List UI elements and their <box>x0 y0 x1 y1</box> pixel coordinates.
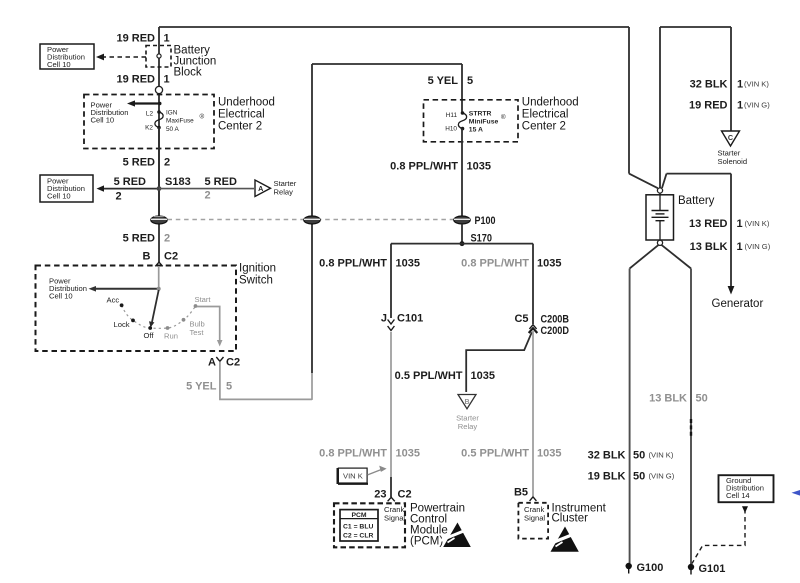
wire: battery positive riser x=660 top loop <box>660 26 731 28</box>
svg-text:B: B <box>464 399 469 406</box>
svg-text:Acc: Acc <box>107 296 120 305</box>
wire: 5 YEL from ignition A down and right (gray) <box>220 362 312 400</box>
svg-text:P100: P100 <box>475 215 496 227</box>
svg-text:S183: S183 <box>165 176 191 188</box>
wire: S183 right to starter relay A <box>159 188 254 190</box>
svg-text:(PCM): (PCM) <box>410 536 443 548</box>
connector Underhood Electrical Center 2 dashed box (right) <box>424 100 519 142</box>
svg-text:2: 2 <box>116 191 122 203</box>
svg-text:19 RED: 19 RED <box>116 33 155 45</box>
wire: right branch x=533 down to C5 <box>532 244 534 324</box>
svg-text:Cell 10: Cell 10 <box>47 192 71 201</box>
svg-text:Cell 10: Cell 10 <box>91 116 115 125</box>
svg-text:5 RED: 5 RED <box>123 157 155 169</box>
wire: top of 5 YEL loop y=64 <box>312 63 462 65</box>
symbol ESD warning (Instrument Cluster) <box>548 527 579 552</box>
svg-text:Electrical: Electrical <box>218 109 265 121</box>
wire: drop x=462 to MiniFuse <box>461 64 463 112</box>
wire: arrow to power distribution inside ignition switch <box>96 288 158 290</box>
connector triangle A to Starter Relay <box>255 180 271 197</box>
svg-text:Run: Run <box>164 332 178 341</box>
svg-text:®: ® <box>501 113 506 121</box>
callout VIN K box <box>338 466 387 484</box>
svg-text:G101: G101 <box>699 563 726 575</box>
svg-text:Cell 14: Cell 14 <box>726 491 750 500</box>
wire: from Start contact to connector A (gray) <box>197 307 220 341</box>
svg-text:Cell 10: Cell 10 <box>49 292 73 301</box>
node: junction block pass-through circle <box>157 54 161 58</box>
svg-text:1035: 1035 <box>467 161 491 173</box>
svg-text:C2: C2 <box>226 357 240 369</box>
svg-text:H10: H10 <box>445 126 457 133</box>
node: connector circle into Underhood Electrical Center 2 <box>155 86 162 93</box>
svg-text:Start: Start <box>195 295 212 304</box>
connector triangle C to Starter Solenoid <box>722 131 740 146</box>
svg-text:1: 1 <box>164 74 170 86</box>
grommet on trunk x=159 <box>151 216 167 224</box>
svg-text:32 BLK: 32 BLK <box>588 450 626 462</box>
svg-text:C1 = BLU: C1 = BLU <box>343 524 373 531</box>
svg-text:50: 50 <box>696 393 708 405</box>
svg-text:Lock: Lock <box>114 320 130 329</box>
svg-text:A: A <box>258 184 263 193</box>
svg-text:5: 5 <box>226 381 232 393</box>
svg-text:0.8 PPL/WHT: 0.8 PPL/WHT <box>390 161 458 173</box>
svg-text:Signal: Signal <box>384 514 405 523</box>
connector Battery Junction Block dashed box <box>146 46 171 68</box>
svg-text:(VIN K): (VIN K) <box>745 219 770 228</box>
svg-text:VIN K: VIN K <box>343 472 363 481</box>
svg-text:®: ® <box>200 113 205 121</box>
svg-text:0.8 PPL/WHT: 0.8 PPL/WHT <box>319 258 387 270</box>
svg-text:Electrical: Electrical <box>522 109 569 121</box>
svg-text:H11: H11 <box>446 112 458 119</box>
wire: battery negative V split <box>630 245 659 269</box>
svg-text:1: 1 <box>737 79 743 91</box>
wire: generator drop x=731 <box>730 174 732 286</box>
svg-text:0.5 PPL/WHT: 0.5 PPL/WHT <box>395 370 463 382</box>
svg-text:23: 23 <box>374 489 386 501</box>
module Instrument Cluster dashed box <box>518 503 548 539</box>
wire: dashed gray bulkhead line <box>168 219 455 221</box>
svg-text:2: 2 <box>164 233 170 245</box>
wire: arrow to power distribution inside underhood center <box>135 102 160 104</box>
battery cell symbol <box>652 193 669 240</box>
wire: dashed reference to G101 <box>742 506 748 513</box>
svg-text:Relay: Relay <box>274 188 294 197</box>
svg-text:1: 1 <box>737 218 743 230</box>
svg-text:0.5 PPL/WHT: 0.5 PPL/WHT <box>461 448 529 460</box>
svg-text:19 BLK: 19 BLK <box>588 471 626 483</box>
svg-text:C2: C2 <box>164 251 178 263</box>
svg-text:5: 5 <box>467 75 473 87</box>
svg-text:0.8 PPL/WHT: 0.8 PPL/WHT <box>461 258 529 270</box>
svg-text:5 RED: 5 RED <box>123 233 155 245</box>
svg-text:Off: Off <box>144 331 155 340</box>
svg-text:Solenoid: Solenoid <box>718 157 748 166</box>
svg-text:Relay: Relay <box>458 422 478 431</box>
svg-text:Ignition: Ignition <box>239 263 276 275</box>
svg-text:50 A: 50 A <box>166 126 180 133</box>
svg-text:50: 50 <box>633 450 645 462</box>
svg-text:Block: Block <box>174 67 202 79</box>
wire: left branch x=391 down to C101 <box>390 244 392 318</box>
battery box <box>646 195 674 240</box>
svg-text:1035: 1035 <box>537 448 561 460</box>
svg-text:13 BLK: 13 BLK <box>649 393 687 405</box>
svg-text:Generator: Generator <box>712 298 764 310</box>
switch arm to Off <box>152 290 159 322</box>
box Power Distribution Cell 10 (second) <box>40 175 93 202</box>
wire: ignition feed inside box <box>158 266 160 289</box>
svg-text:1: 1 <box>737 241 743 253</box>
wire: starter solenoid drop x=731 <box>730 27 732 131</box>
wire: riser x=312 (gray lower part) <box>311 373 313 400</box>
svg-text:L2: L2 <box>146 111 154 118</box>
svg-text:(VIN G): (VIN G) <box>649 472 675 481</box>
svg-text:50: 50 <box>633 471 645 483</box>
svg-text:(VIN K): (VIN K) <box>649 451 674 460</box>
wire: fuse output down to S183 <box>158 128 160 217</box>
svg-text:IGN: IGN <box>166 110 178 117</box>
switch Ignition Switch dashed box <box>36 266 237 352</box>
node: switch pivot <box>157 287 161 291</box>
connector triangle B to Starter Relay <box>458 395 476 409</box>
wire: top feed from Battery Junction Block to battery (y=27) <box>159 26 629 28</box>
contact Bulb Test <box>182 318 186 322</box>
svg-text:C200B: C200B <box>541 314 570 326</box>
svg-text:0.8 PPL/WHT: 0.8 PPL/WHT <box>319 448 387 460</box>
svg-text:C2 = CLR: C2 = CLR <box>343 533 373 540</box>
module Powertrain Control Module (PCM) dashed box <box>334 503 405 547</box>
wire: S183 arrow left to power distribution <box>104 188 159 190</box>
svg-text:13 RED: 13 RED <box>689 218 728 230</box>
node S183 splice <box>157 186 162 191</box>
wire: MiniFuse output down to P100 <box>461 129 463 216</box>
svg-text:B: B <box>143 251 151 263</box>
svg-text:C5: C5 <box>514 313 528 325</box>
wire: branch from C5 to starter relay (horizontal + diagonal with arrow) <box>466 332 532 392</box>
svg-text:STRTR: STRTR <box>469 111 492 118</box>
svg-text:PCM: PCM <box>351 512 366 519</box>
box Ground Distribution Cell 14 <box>719 475 774 502</box>
svg-text:C101: C101 <box>397 313 423 325</box>
svg-text:1: 1 <box>737 100 743 112</box>
box Power Distribution Cell 10 (top) <box>40 44 94 69</box>
wire: S170 horizontal bus <box>391 243 533 245</box>
wire: x=629 battery feed drop <box>628 27 630 174</box>
svg-text:C200D: C200D <box>541 325 570 337</box>
svg-text:Signal: Signal <box>524 514 545 523</box>
svg-text:15 A: 15 A <box>469 126 483 133</box>
wire: ground run to G100 <box>629 269 631 564</box>
svg-text:Battery: Battery <box>678 195 715 207</box>
svg-text:Underhood: Underhood <box>522 97 579 109</box>
wire: ground run to G101 <box>690 269 692 565</box>
svg-text:1035: 1035 <box>396 258 420 270</box>
svg-text:19 RED: 19 RED <box>689 100 728 112</box>
svg-text:32 BLK: 32 BLK <box>690 79 728 91</box>
switch contact arc (dashed) <box>122 305 196 328</box>
svg-text:1035: 1035 <box>471 370 495 382</box>
svg-text:(VIN G): (VIN G) <box>745 242 771 251</box>
contact Off <box>148 326 152 330</box>
connector Underhood Electrical Center 2 dashed box (left) <box>84 95 214 149</box>
battery B- terminal circle <box>657 240 662 245</box>
svg-text:Underhood: Underhood <box>218 97 275 109</box>
svg-text:5 YEL: 5 YEL <box>186 381 217 393</box>
contact Acc <box>120 303 124 307</box>
decorative blue arrow at right edge <box>792 490 800 496</box>
svg-text:Cell 10: Cell 10 <box>47 60 71 69</box>
wire: P100 to S170 <box>461 224 463 244</box>
splice marks on G101 run <box>690 419 692 437</box>
svg-text:19 RED: 19 RED <box>116 74 155 86</box>
wire: main trunk x=159 from top to grommet <box>158 27 160 216</box>
contact Run <box>166 326 170 330</box>
contact Lock <box>131 319 135 323</box>
svg-text:B5: B5 <box>514 487 528 499</box>
wire: straight down to instrument cluster (gray) <box>532 331 534 496</box>
svg-text:Center 2: Center 2 <box>522 121 566 133</box>
wire: y=173.6 to generator branch <box>667 173 732 175</box>
svg-text:J: J <box>381 313 387 325</box>
contact Start <box>194 304 198 308</box>
svg-text:MaxiFuse: MaxiFuse <box>166 118 194 125</box>
svg-text:2: 2 <box>164 157 170 169</box>
symbol ESD warning (PCM) <box>441 523 472 548</box>
svg-text:5 RED: 5 RED <box>205 176 237 188</box>
svg-text:S170: S170 <box>471 233 493 245</box>
svg-text:(VIN G): (VIN G) <box>744 101 770 110</box>
wire: trunk x=159 grommet to ignition switch <box>158 224 160 262</box>
svg-text:Test: Test <box>190 328 205 337</box>
svg-text:C2: C2 <box>398 489 412 501</box>
svg-text:G100: G100 <box>637 562 664 574</box>
svg-text:1035: 1035 <box>537 258 561 270</box>
svg-text:(VIN K): (VIN K) <box>744 80 769 89</box>
grommet on riser x=312 <box>304 216 320 224</box>
wire: dashed arrow to Power Distribution Cell 10 (top) <box>104 56 146 58</box>
grommet P100 <box>454 216 470 224</box>
svg-text:5 YEL: 5 YEL <box>428 75 459 87</box>
svg-text:K2: K2 <box>145 125 153 132</box>
svg-text:C: C <box>728 133 733 142</box>
wire: left branch below C101 (gray) <box>390 332 392 477</box>
wire: riser x=312 (black) <box>311 224 313 373</box>
svg-text:MiniFuse: MiniFuse <box>469 118 499 125</box>
legend PCM connector colors <box>340 510 378 541</box>
wire: short black segment into PCM <box>390 477 392 497</box>
svg-text:2: 2 <box>205 190 211 202</box>
svg-text:5 RED: 5 RED <box>114 176 146 188</box>
svg-text:A: A <box>208 357 216 369</box>
svg-text:Center 2: Center 2 <box>218 121 262 133</box>
battery B+ terminal circle <box>657 188 662 193</box>
svg-text:13 BLK: 13 BLK <box>690 241 728 253</box>
svg-text:Cluster: Cluster <box>552 513 589 525</box>
ground G100 <box>626 563 632 569</box>
ground G101 <box>688 564 694 570</box>
svg-text:1035: 1035 <box>396 448 420 460</box>
node: junction dot at fuse feed <box>158 102 161 105</box>
svg-text:Switch: Switch <box>239 275 273 287</box>
svg-text:1: 1 <box>164 33 170 45</box>
